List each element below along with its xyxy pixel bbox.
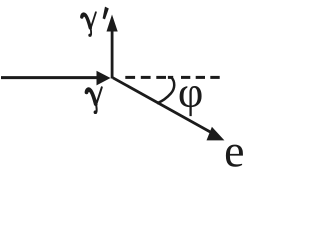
- wire: incident photon line: [1, 76, 99, 79]
- arrowhead of incident photon: [97, 71, 111, 86]
- arrowhead of electron line: [207, 127, 225, 141]
- angle arc phi: [157, 77, 174, 103]
- arrowhead of scattered photon: [107, 15, 118, 32]
- label phi (angle): [180, 86, 202, 116]
- wire: scattered photon line (vertical): [111, 25, 114, 79]
- dashed reference line: [125, 76, 219, 79]
- label e (electron): [226, 145, 243, 167]
- wire: electron line (diagonal): [113, 78, 213, 134]
- dash nub at arc top: [168, 76, 173, 79]
- label gamma (incident photon): [87, 87, 102, 114]
- label gamma-prime (scattered photon): [82, 12, 96, 37]
